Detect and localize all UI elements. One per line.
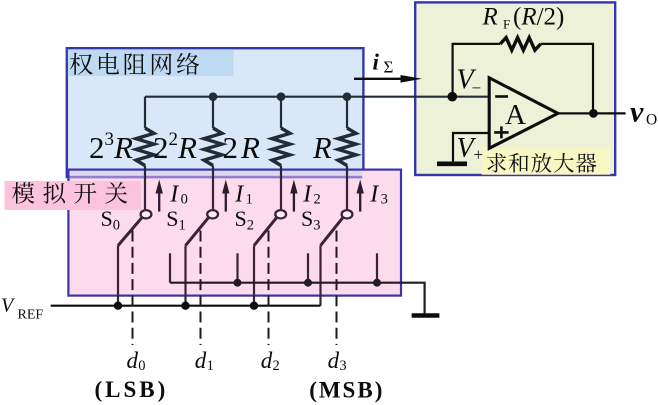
svg-text:+: + xyxy=(474,145,484,164)
wire: output xyxy=(558,112,626,114)
svg-text:d: d xyxy=(195,348,207,373)
svg-text:S: S xyxy=(101,206,113,231)
svg-text:S: S xyxy=(166,206,178,231)
highlight bg 求和放大器 xyxy=(482,148,611,175)
svg-text:(R/2): (R/2) xyxy=(513,4,564,31)
wire: non-inverting input to ground xyxy=(453,133,489,162)
wire: V_REF bus xyxy=(51,305,321,307)
svg-text:REF: REF xyxy=(18,308,44,323)
current arrow I2 xyxy=(290,180,297,212)
label 模拟开关 (analog switches) xyxy=(12,182,127,204)
arrow i_Sigma xyxy=(354,75,422,83)
svg-text:−: − xyxy=(472,79,482,98)
node: output junction dot xyxy=(589,109,598,118)
svg-text:2: 2 xyxy=(247,217,254,233)
switch S1 xyxy=(186,210,219,306)
svg-text:d: d xyxy=(261,348,273,373)
feedback wire left xyxy=(453,44,501,96)
svg-text:R: R xyxy=(482,4,498,31)
op-amp plus sign xyxy=(494,126,508,138)
label 权电阻网络 (weighted resistor network) xyxy=(70,53,199,75)
svg-text:S: S xyxy=(301,206,313,231)
svg-text:d: d xyxy=(328,348,340,373)
ground-side contact stub of S1 xyxy=(236,253,238,282)
svg-text:2R: 2R xyxy=(223,130,261,165)
svg-text:v: v xyxy=(630,96,644,129)
resistor 2^1R column xyxy=(280,97,282,128)
node V- junction dot xyxy=(448,92,458,102)
dashed control line d2 xyxy=(268,231,270,346)
label bg 权电阻网络 xyxy=(68,49,234,76)
svg-text:1: 1 xyxy=(246,191,253,207)
svg-text:3: 3 xyxy=(313,217,320,233)
current arrow I1 xyxy=(222,180,229,212)
svg-text:Σ: Σ xyxy=(384,57,394,76)
current arrow I0 xyxy=(156,180,163,212)
svg-text:A: A xyxy=(505,99,526,131)
dashed control line d3 xyxy=(336,231,338,346)
resistor R_F xyxy=(500,38,540,51)
svg-text:0: 0 xyxy=(113,217,120,233)
svg-text:2: 2 xyxy=(314,191,321,207)
svg-text:S: S xyxy=(235,206,247,231)
dashed control line d0 xyxy=(132,231,134,346)
svg-text:I: I xyxy=(369,182,379,208)
label 求和放大器 (summing amplifier) xyxy=(487,153,596,173)
box: summing amplifier (green) xyxy=(415,2,615,175)
svg-text:F: F xyxy=(503,17,510,32)
svg-text:d: d xyxy=(127,348,139,373)
svg-text:1: 1 xyxy=(179,217,186,233)
svg-text:O: O xyxy=(646,112,657,129)
junction dots on V_REF bus xyxy=(114,302,258,310)
svg-text:2: 2 xyxy=(273,358,280,374)
resistor 2^0R column xyxy=(346,97,348,128)
op-amp U1 triangle xyxy=(489,78,558,149)
box: analog switches (pink) xyxy=(68,170,401,296)
ground-side contact stub of S3 xyxy=(376,253,378,282)
label bg 模拟开关 xyxy=(5,181,142,210)
svg-text:3: 3 xyxy=(381,191,388,207)
dashed control line d1 xyxy=(200,231,202,346)
op-amp minus sign xyxy=(495,95,508,98)
resistor 2^2R column xyxy=(212,97,214,128)
svg-text:i: i xyxy=(373,50,380,75)
ground symbol (bottom) xyxy=(412,313,440,318)
switch S2 xyxy=(254,210,286,306)
svg-text:0: 0 xyxy=(138,358,145,374)
svg-text:I: I xyxy=(234,182,244,208)
wire: ground bus xyxy=(170,283,425,314)
feedback wire right xyxy=(541,44,593,114)
svg-text:R: R xyxy=(312,131,332,165)
svg-text:(MSB): (MSB) xyxy=(309,378,384,403)
svg-text:0: 0 xyxy=(181,191,188,207)
svg-text:I: I xyxy=(169,182,179,208)
junction dots on ground bus xyxy=(234,279,382,287)
svg-text:1: 1 xyxy=(207,358,214,374)
svg-text:I: I xyxy=(302,182,312,208)
switch S3 xyxy=(321,210,353,306)
node: junction dots on bus xyxy=(209,92,352,101)
ground-side contact stub of S2 xyxy=(307,253,309,282)
box: weighted resistor network (blue) xyxy=(67,48,364,177)
resistor 2^3R column xyxy=(144,97,146,128)
switch S0 xyxy=(118,210,151,306)
current arrow I3 xyxy=(357,180,364,212)
ground-side contact stub of S0 xyxy=(169,253,171,282)
svg-text:(LSB): (LSB) xyxy=(95,377,169,402)
svg-text:3: 3 xyxy=(339,358,346,374)
ground symbol (op-amp) xyxy=(437,162,467,167)
wire: summing bus to op-amp inverting input xyxy=(145,96,489,98)
